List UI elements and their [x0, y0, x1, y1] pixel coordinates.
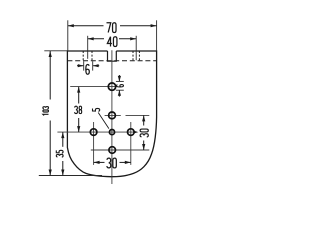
- hole H6 (bottom): [109, 147, 116, 154]
- vertical center axis line: [111, 50, 113, 184]
- arrow 103 bottom: [49, 170, 52, 176]
- arrow 30 right top: [142, 115, 145, 121]
- text 5: [93, 108, 100, 111]
- tick right of slot width 6: [92, 61, 94, 70]
- arrow 70 left: [68, 24, 74, 27]
- dimension line 35: [62, 132, 64, 175]
- tick left of slot width 6: [83, 61, 85, 70]
- arrow 70 right: [151, 24, 157, 27]
- extension line 40 right: [135, 36, 137, 61]
- text 38: [75, 106, 82, 113]
- arrow 35 bottom: [61, 170, 64, 176]
- text 6 hole: [116, 85, 123, 87]
- hole H2 extension line right: [126, 114, 150, 116]
- dimension 6 hole H1: arrow bottom: [118, 90, 121, 96]
- text 30 right: [140, 129, 148, 137]
- dimension line 40: [88, 38, 137, 40]
- hole H5 vertical centerline: [130, 122, 132, 165]
- dimension 6 slot: arrow left: [77, 65, 99, 67]
- hidden slot right edge b: [138, 51, 140, 61]
- middle hole row centerline: [57, 131, 136, 133]
- hole H3 vertical centerline: [93, 122, 95, 165]
- dimension line 38: [78, 87, 80, 133]
- tick above hole H1 dia 6: [116, 80, 124, 82]
- dimension line 103: [49, 51, 51, 176]
- text 40: [107, 37, 117, 47]
- hidden slot left edge b: [91, 51, 93, 61]
- arrow 38 top: [77, 87, 80, 93]
- top center slot: [108, 51, 117, 61]
- extension line 70/40 right: [156, 20, 158, 51]
- extension line 103 top: [44, 50, 67, 52]
- text 70: [106, 23, 116, 33]
- dimension line 30 right: [143, 115, 145, 150]
- arrow 30 bottom left: [94, 161, 100, 164]
- text 103: [43, 107, 49, 116]
- leader line for dia 5: [98, 113, 109, 129]
- dimension 6 slot: arrow right: [93, 64, 99, 67]
- dimension line 30 bottom: [94, 161, 131, 163]
- arrow 30 bottom right: [125, 161, 131, 164]
- hole H3 (row left): [90, 129, 97, 136]
- hole H5 (row right): [128, 129, 135, 136]
- arrowhead at row centerline end: [134, 131, 138, 134]
- arrow 103 top: [49, 51, 52, 57]
- hidden slot right edge a: [132, 51, 134, 61]
- hole H1 horizontal centerline: [70, 86, 117, 88]
- hole H4 (center, dia 5): [109, 130, 114, 135]
- hidden slot left edge a: [82, 51, 84, 61]
- extension line 70 left: [67, 20, 69, 51]
- extension line 40 left: [87, 36, 89, 59]
- text 35: [56, 150, 63, 157]
- mounting plate outline: [67, 51, 156, 177]
- tick below hole H1 dia 6: [116, 89, 124, 91]
- hole H2: [109, 112, 116, 119]
- hidden fold line (dashed): [67, 60, 156, 62]
- arrow 35 top: [61, 132, 64, 138]
- arrow 40 left: [88, 37, 94, 40]
- text 6 top: [86, 64, 89, 74]
- dimension line 70: [68, 25, 157, 27]
- hole H1 (top, dia 6): [108, 83, 115, 90]
- hole H6 horizontal centerline: [91, 149, 150, 151]
- hole H2 horizontal centerline: [105, 114, 121, 116]
- arrow 38 bottom: [77, 126, 80, 132]
- extension line 103/35 bottom: [39, 175, 102, 177]
- text 30 bottom: [107, 158, 116, 168]
- arrow 30 right bottom: [142, 144, 145, 150]
- arrow 40 right: [130, 37, 136, 40]
- dimension 6 hole H1: arrow top: [118, 75, 120, 97]
